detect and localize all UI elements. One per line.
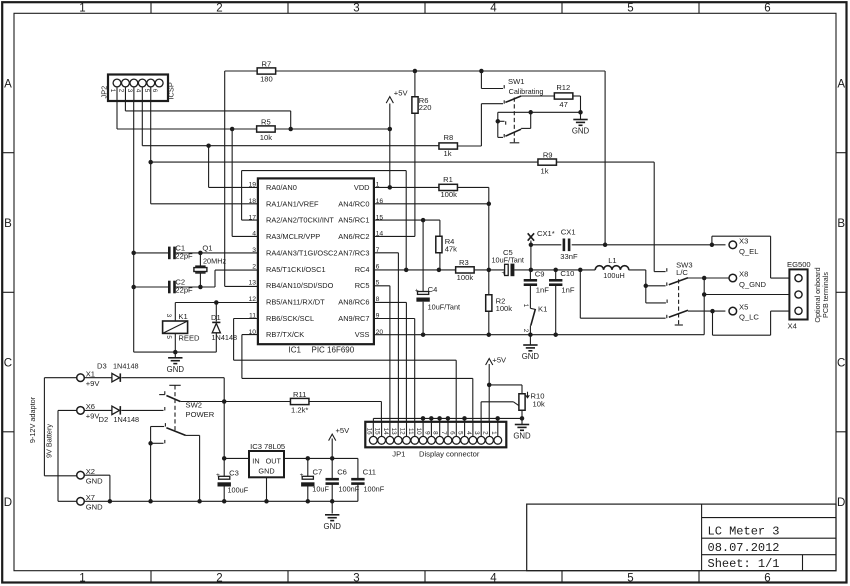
svg-text:10k: 10k — [260, 133, 272, 142]
wire X5 loop to EG500 pin3 — [712, 311, 714, 335]
resistor R2 — [486, 295, 492, 312]
wire C3 to IC3 input — [224, 457, 249, 459]
svg-text:C7: C7 — [313, 467, 323, 476]
svg-text:15: 15 — [376, 214, 384, 221]
wire SW1 pole A common to R12 — [521, 95, 554, 97]
wire C11 leads — [357, 458, 359, 478]
wire R6 bottom to IC pin14 — [414, 113, 416, 236]
resistor R1 — [439, 184, 458, 190]
relay contact K1 — [530, 308, 535, 309]
ground at R12 — [573, 119, 587, 121]
svg-text:5: 5 — [457, 431, 464, 435]
wire IC3 output rail — [284, 457, 358, 459]
ground at K1 contact — [523, 344, 537, 346]
svg-text:5: 5 — [627, 573, 633, 585]
wire SW3 pole2 lower throw feed — [579, 270, 581, 318]
svg-text:2: 2 — [252, 263, 256, 270]
diode D3 — [112, 373, 120, 382]
wire 9V battery bracket — [58, 409, 77, 411]
svg-text:1: 1 — [490, 431, 497, 435]
connector JP2 — [108, 75, 168, 102]
svg-text:LC Meter 3: LC Meter 3 — [708, 525, 780, 539]
svg-text:3: 3 — [165, 314, 172, 318]
svg-text:17: 17 — [248, 214, 256, 221]
svg-text:+5V: +5V — [336, 426, 351, 435]
connector X4 EG500 — [789, 269, 807, 319]
IC1 PIC16F690 — [258, 178, 374, 344]
svg-text:3: 3 — [252, 247, 256, 254]
wire SW2 pole1 common to R11 — [180, 401, 290, 403]
wire R1 right to R2 column — [457, 186, 488, 188]
ground at R10 — [515, 424, 529, 426]
svg-text:C4: C4 — [428, 285, 438, 294]
svg-text:15: 15 — [374, 428, 381, 436]
svg-text:POWER: POWER — [186, 410, 215, 419]
wire C2 row jog to IC pin2 — [214, 270, 216, 287]
svg-text:R12: R12 — [556, 83, 570, 92]
svg-text:16: 16 — [365, 428, 372, 436]
capacitor mark CX1* — [528, 233, 534, 240]
svg-text:C9: C9 — [535, 270, 545, 279]
svg-text:100uF: 100uF — [228, 485, 249, 494]
svg-text:1.2k*: 1.2k* — [291, 406, 308, 415]
svg-text:10k: 10k — [533, 400, 545, 409]
wire SW2 pole2 common down — [186, 434, 200, 436]
svg-text:18: 18 — [248, 198, 256, 205]
svg-text:100k: 100k — [457, 273, 474, 282]
wire VSS rail — [374, 334, 704, 336]
svg-text:R7: R7 — [262, 59, 272, 68]
svg-text:K1: K1 — [538, 305, 547, 314]
power arrow +5V at JP1 — [486, 359, 493, 366]
svg-text:IC1: IC1 — [289, 346, 302, 355]
wire X3 loop to EG500 pin 1 — [711, 236, 713, 245]
wire SW1 top throw from VDD rail — [480, 71, 482, 89]
capacitor C2 — [168, 281, 171, 294]
connector JP1 display — [365, 422, 506, 448]
svg-text:4: 4 — [465, 431, 472, 435]
svg-text:12: 12 — [248, 296, 256, 303]
svg-text:100k: 100k — [496, 304, 513, 313]
svg-text:X5: X5 — [739, 302, 748, 311]
svg-text:RA3/MCLR/VPP: RA3/MCLR/VPP — [266, 232, 320, 241]
svg-text:L1: L1 — [608, 256, 616, 265]
svg-text:Sheet: 1/1: Sheet: 1/1 — [708, 557, 780, 571]
wire SW2 pole2 throws — [151, 426, 165, 428]
svg-text:+5V: +5V — [492, 355, 507, 364]
svg-text:RA2/AN2/T0CKI/INT: RA2/AN2/T0CKI/INT — [266, 216, 334, 225]
wire X1 adaptor bracket — [44, 377, 76, 379]
svg-text:CX1*: CX1* — [537, 229, 555, 238]
svg-text:16: 16 — [376, 198, 384, 205]
wire X2 to ground rail — [84, 474, 110, 476]
svg-text:X8: X8 — [739, 270, 748, 279]
svg-text:RA0/AN0: RA0/AN0 — [266, 183, 297, 192]
svg-text:4: 4 — [490, 573, 497, 585]
wire JP1 ground bus — [373, 417, 522, 419]
svg-text:PIC 16F690: PIC 16F690 — [312, 346, 355, 355]
wire CX row to X3 — [530, 241, 532, 270]
svg-text:X2: X2 — [86, 467, 95, 476]
wire Q1 top to IC pin3 row — [134, 252, 169, 254]
crystal Q1 — [195, 265, 205, 267]
svg-text:X1: X1 — [86, 369, 95, 378]
wire K1 D1 ground link — [134, 351, 217, 353]
svg-text:20: 20 — [376, 329, 384, 336]
capacitor C9 — [524, 279, 537, 282]
svg-text:+9V: +9V — [86, 379, 101, 388]
svg-text:RB7/TX/CK: RB7/TX/CK — [266, 330, 304, 339]
svg-text:RA4/AN3/T1GI/OSC2: RA4/AN3/T1GI/OSC2 — [266, 248, 337, 257]
regulator IC3 78L05 — [249, 451, 284, 477]
svg-text:D3: D3 — [97, 362, 107, 371]
svg-text:GND: GND — [167, 365, 185, 374]
wire JP2 pin1 R5 row — [116, 87, 118, 129]
svg-text:Q1: Q1 — [202, 243, 212, 252]
svg-text:SW1: SW1 — [508, 77, 524, 86]
wire JP2 pin2 to R5 right — [124, 87, 126, 111]
wire K1 coil top lead — [174, 303, 176, 322]
wire R10 top tap — [489, 384, 522, 386]
capacitor CX1 — [563, 239, 566, 252]
svg-text:10: 10 — [415, 428, 422, 436]
svg-text:4: 4 — [490, 3, 497, 15]
svg-text:2: 2 — [482, 431, 489, 435]
svg-text:1: 1 — [109, 89, 116, 93]
svg-text:C6: C6 — [337, 467, 347, 476]
svg-text:4: 4 — [134, 89, 141, 93]
svg-text:8: 8 — [376, 296, 380, 303]
wire IC pin5 to JP1 pin14 — [374, 285, 390, 287]
diode D1 — [212, 323, 220, 332]
svg-text:8: 8 — [432, 431, 439, 435]
svg-text:1nF: 1nF — [536, 286, 549, 295]
svg-text:100uH: 100uH — [603, 271, 625, 280]
svg-text:C10: C10 — [560, 269, 574, 278]
wire pin5 tap down to IC pin18 — [150, 162, 152, 204]
wire R9 right to SW3 — [556, 161, 654, 163]
svg-text:1N4148: 1N4148 — [113, 362, 139, 371]
capacitor C3 — [219, 476, 230, 479]
svg-text:13: 13 — [390, 428, 397, 436]
svg-text:1k: 1k — [540, 166, 548, 175]
svg-text:R5: R5 — [261, 117, 271, 126]
svg-text:GND: GND — [86, 476, 103, 485]
ground at K1 coil — [168, 357, 182, 359]
wire R12 right to ground node — [573, 95, 581, 97]
capacitor C4 — [418, 292, 429, 295]
terminal X2 — [77, 471, 85, 479]
svg-text:D: D — [4, 497, 12, 509]
svg-text:L/C: L/C — [676, 268, 688, 277]
svg-text:3: 3 — [473, 431, 480, 435]
svg-text:SW2: SW2 — [186, 400, 202, 409]
svg-text:3: 3 — [353, 3, 359, 15]
terminal X3 — [729, 241, 737, 249]
wire Q1 leads — [199, 253, 201, 266]
wire +5V to JP1 pin2 — [488, 364, 490, 437]
svg-text:C: C — [837, 358, 845, 370]
wire R8 right to SW1 — [457, 145, 481, 147]
terminal X6 — [77, 407, 85, 415]
resistor R9 — [538, 159, 557, 165]
svg-text:GND: GND — [324, 522, 342, 531]
svg-text:VSS: VSS — [355, 330, 370, 339]
terminal X1 — [77, 374, 85, 382]
svg-text:2: 2 — [117, 89, 124, 93]
wire bottom ground rail — [84, 500, 358, 502]
wire SW3 pole1 common to X8 — [688, 277, 729, 279]
svg-text:10: 10 — [248, 329, 256, 336]
svg-text:OUT: OUT — [266, 456, 282, 465]
wire C4 bottom to VSS rail — [422, 302, 424, 335]
svg-text:9: 9 — [423, 431, 430, 435]
svg-text:JP2: JP2 — [100, 86, 109, 99]
inductor L1 — [595, 266, 629, 270]
svg-text:47k: 47k — [445, 244, 457, 253]
wire R4 bottom to main row — [439, 253, 441, 270]
wire C7 leads — [307, 458, 309, 476]
capacitor C7 — [302, 476, 313, 479]
svg-text:JP1: JP1 — [392, 449, 405, 458]
svg-text:C: C — [4, 358, 12, 370]
svg-text:100nF: 100nF — [339, 484, 360, 493]
wire IC pin9 to JP1 pin11 — [374, 318, 415, 320]
svg-text:6: 6 — [764, 3, 770, 15]
wire +5V node C6 leads — [331, 439, 333, 479]
resistor R11 — [290, 398, 309, 404]
svg-text:X3: X3 — [739, 236, 748, 245]
svg-text:3: 3 — [126, 89, 133, 93]
svg-text:100nF: 100nF — [364, 484, 385, 493]
wire IC pin12 to K1 coil and D1 — [175, 302, 258, 304]
svg-text:D: D — [837, 497, 845, 509]
svg-text:5: 5 — [376, 280, 380, 287]
switch SW1 Calibrating — [503, 85, 505, 88]
svg-text:6: 6 — [764, 573, 770, 585]
svg-text:10uF/Tant: 10uF/Tant — [428, 303, 460, 312]
svg-text:2: 2 — [216, 573, 222, 585]
wire IC pin15 to R4 and C4 — [374, 219, 440, 221]
svg-text:Display connector: Display connector — [419, 449, 480, 458]
terminal X5 — [729, 307, 737, 315]
wire C3 leads — [223, 458, 225, 476]
svg-text:AN6/RC2: AN6/RC2 — [338, 232, 369, 241]
svg-text:REED: REED — [178, 334, 200, 343]
svg-text:R1: R1 — [443, 175, 453, 184]
svg-text:C11: C11 — [363, 467, 376, 476]
svg-text:3: 3 — [353, 573, 359, 585]
wire IC pin1 to R1 — [374, 186, 439, 188]
svg-text:VDD: VDD — [354, 183, 370, 192]
svg-text:100k: 100k — [440, 190, 457, 199]
terminal X7 — [77, 498, 85, 506]
svg-text:1: 1 — [522, 304, 529, 308]
svg-text:47: 47 — [559, 100, 567, 109]
svg-text:RB6/SCK/SCL: RB6/SCK/SCL — [266, 314, 314, 323]
wire C10 branch — [555, 270, 557, 280]
svg-text:EG500: EG500 — [787, 260, 811, 269]
svg-text:22pF: 22pF — [175, 285, 193, 294]
svg-text:RA5/T1CKI/OSC1: RA5/T1CKI/OSC1 — [266, 265, 326, 274]
svg-text:5: 5 — [165, 335, 172, 339]
svg-text:X7: X7 — [86, 493, 95, 502]
diode D2 — [112, 406, 120, 415]
wire X8 ground column — [703, 278, 705, 335]
switch SW3 L/C — [666, 268, 668, 271]
capacitor C6 — [326, 478, 339, 481]
svg-text:10uF: 10uF — [312, 484, 329, 493]
svg-text:+: + — [415, 287, 419, 294]
svg-text:GND: GND — [522, 352, 540, 361]
svg-text:AN9/RC7: AN9/RC7 — [338, 314, 369, 323]
svg-text:14: 14 — [382, 428, 389, 436]
svg-text:X6: X6 — [86, 402, 95, 411]
svg-text:14: 14 — [376, 231, 384, 238]
wire R2 bottom to VSS rail — [488, 311, 490, 334]
svg-text:6: 6 — [151, 89, 158, 93]
svg-text:33nF: 33nF — [560, 252, 578, 261]
svg-text:B: B — [837, 218, 845, 230]
svg-text:AN8/RC6: AN8/RC6 — [338, 297, 369, 306]
svg-text:1: 1 — [79, 3, 85, 15]
capacitor C1 — [168, 247, 171, 260]
wire JP2 pin5 to R9 row — [150, 87, 152, 162]
svg-text:X4: X4 — [788, 321, 797, 330]
wire X6 D2 to SW2 throw — [84, 409, 112, 411]
title block — [527, 504, 836, 571]
capacitor C11 — [351, 478, 364, 481]
svg-text:IN: IN — [252, 456, 259, 465]
junction dots — [413, 69, 418, 74]
svg-text:12: 12 — [399, 428, 406, 436]
svg-text:AN4/RC0: AN4/RC0 — [338, 199, 369, 208]
svg-text:+5V: +5V — [394, 88, 409, 97]
svg-text:9-12V adaptor: 9-12V adaptor — [28, 396, 37, 443]
wire SW3 pole2 common to X5 — [688, 310, 725, 312]
svg-text:A: A — [4, 79, 12, 91]
svg-text:1: 1 — [79, 573, 85, 585]
svg-text:19: 19 — [248, 182, 256, 189]
wire main oscillator row RC4 — [374, 269, 456, 271]
svg-text:GND: GND — [258, 466, 274, 475]
svg-text:RC5: RC5 — [355, 281, 370, 290]
resistor R4 — [436, 236, 442, 253]
svg-text:R3: R3 — [459, 258, 469, 267]
svg-text:+: + — [502, 270, 506, 277]
svg-text:D1: D1 — [211, 313, 221, 322]
svg-text:RC4: RC4 — [355, 265, 370, 274]
wire JP2 pin4 to R8 — [141, 87, 143, 146]
wire +5V rail to R5 row and IC pin1 — [389, 104, 391, 188]
wire EG500 pin2 — [704, 294, 789, 296]
svg-text:1N4148: 1N4148 — [114, 415, 140, 424]
wire C9 branch with K1 contact — [529, 270, 531, 280]
svg-text:6: 6 — [376, 263, 380, 270]
svg-text:RA1/AN1/VREF: RA1/AN1/VREF — [266, 199, 319, 208]
svg-text:5: 5 — [143, 89, 150, 93]
svg-text:9: 9 — [376, 312, 380, 319]
wire SW1 lower section — [498, 111, 581, 113]
wire IC pin16 row — [374, 203, 489, 205]
svg-text:180: 180 — [260, 75, 273, 84]
svg-text:Q_LC: Q_LC — [739, 312, 759, 321]
terminal X8 — [729, 274, 737, 282]
svg-text:GND: GND — [513, 432, 531, 441]
svg-text:RB4/AN10/SDI/SDO: RB4/AN10/SDI/SDO — [266, 281, 334, 290]
svg-text:2: 2 — [216, 3, 222, 15]
wire top rail down to CX row — [604, 71, 606, 245]
wire around-IC RA2 to RC4 row — [242, 170, 407, 172]
wire X1 D3 to power node — [84, 377, 112, 379]
resistor R7 — [257, 68, 276, 74]
svg-text:K1: K1 — [178, 312, 187, 321]
svg-text:1k: 1k — [443, 149, 451, 158]
svg-text:10uF/Tant: 10uF/Tant — [492, 255, 524, 264]
svg-text:9V Battery: 9V Battery — [45, 424, 54, 458]
svg-text:1nF: 1nF — [561, 286, 574, 295]
ground below C6 — [325, 514, 339, 516]
svg-text:13: 13 — [248, 280, 256, 287]
svg-text:7: 7 — [440, 431, 447, 435]
svg-text:PCB terminals: PCB terminals — [821, 272, 830, 318]
capacitor C5 — [505, 264, 509, 275]
resistor R5 — [257, 126, 276, 132]
resistor R12 — [554, 93, 573, 99]
svg-text:220: 220 — [419, 103, 432, 112]
power arrow +5V at IC3 — [329, 434, 336, 441]
wire IC pin7 to JP1 pin13 — [374, 252, 399, 254]
svg-text:RB5/AN11/RX/DT: RB5/AN11/RX/DT — [266, 297, 325, 306]
svg-text:CX1: CX1 — [561, 227, 576, 236]
wire SW3 pole1 lower throw feed — [646, 285, 666, 287]
resistor R6 — [412, 97, 418, 114]
svg-text:22pF: 22pF — [175, 251, 193, 260]
svg-text:5: 5 — [627, 3, 633, 15]
svg-text:GND: GND — [86, 502, 103, 511]
svg-text:11: 11 — [407, 428, 414, 435]
svg-text:2: 2 — [522, 329, 529, 333]
svg-text:+: + — [300, 472, 304, 479]
svg-text:11: 11 — [249, 312, 256, 319]
wire IC pin10 to JP1 pin4 — [242, 334, 258, 336]
wire D1 leads — [215, 303, 217, 322]
wire R6 top lead — [414, 71, 416, 97]
wire VDD top rail y71 — [225, 70, 258, 72]
wire R10 wiper to JP1 pin3 — [481, 401, 513, 403]
svg-text:4: 4 — [252, 231, 256, 238]
svg-text:1N4148: 1N4148 — [212, 333, 238, 342]
svg-text:ICSP: ICSP — [167, 82, 176, 99]
relay coil K1 — [163, 321, 188, 333]
svg-text:Q_EL: Q_EL — [739, 247, 758, 256]
wire R7 left lead down to IC pin13 — [224, 71, 226, 286]
wire K1 coil bottom lead — [174, 333, 176, 352]
potentiometer R10 — [519, 394, 525, 411]
wire Q1 bottom C2 row — [134, 286, 169, 288]
resistor R8 — [439, 143, 458, 149]
svg-text:AN5/RC1: AN5/RC1 — [338, 216, 369, 225]
wire pin4 tap down to IC pin19 — [208, 146, 210, 188]
wire MCLR pullup tap to IC pin4 — [231, 129, 233, 236]
wire R10 bottom to GND — [521, 411, 523, 419]
svg-text:Q_GND: Q_GND — [739, 280, 767, 289]
wire IC3 ground lead — [266, 477, 268, 501]
svg-text:A: A — [837, 79, 845, 91]
svg-text:IC3 78L05: IC3 78L05 — [250, 442, 285, 451]
svg-text:6: 6 — [448, 431, 455, 435]
svg-text:R8: R8 — [444, 133, 454, 142]
